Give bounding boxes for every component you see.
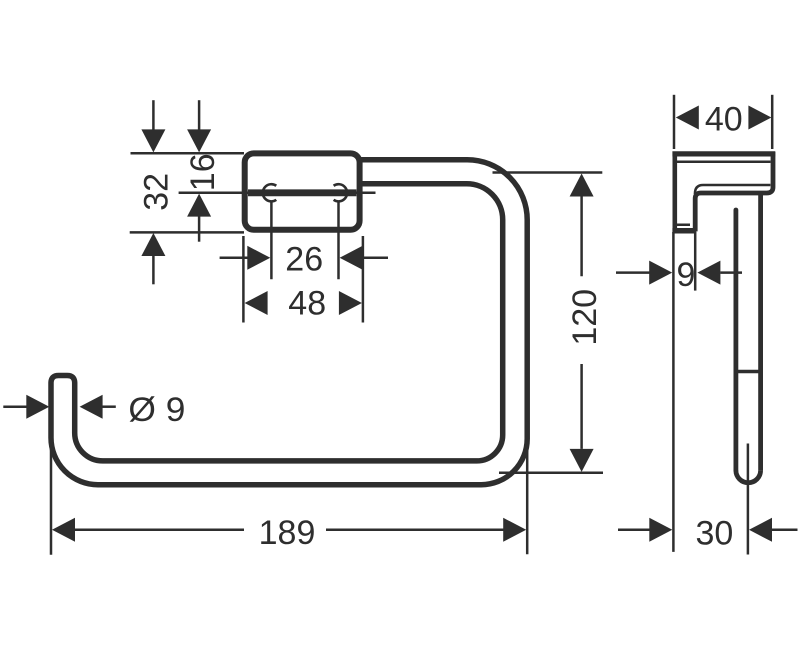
dimension diameter 9: left tail — [3, 405, 30, 408]
dimension 26: right tail — [363, 257, 388, 260]
side view: arm inner lip line — [695, 185, 771, 194]
dimension 9: left arrowhead — [649, 261, 672, 285]
dimension 189: left line — [75, 529, 244, 532]
dimension 48: right arrowhead — [339, 291, 362, 315]
side view: tube seam tick — [735, 370, 763, 374]
svg-text:40: 40 — [705, 101, 743, 139]
dimension 40: left extension line — [673, 95, 676, 149]
side view: bracket top line — [672, 151, 775, 156]
dimension 120: upper tail — [580, 196, 583, 276]
dimension 48: left arrowhead — [245, 291, 268, 315]
left screw hole arc — [263, 184, 277, 201]
dimension 16: bottom arrow tail — [198, 216, 201, 241]
towel ring tube outline (front view) — [51, 160, 527, 485]
side view: wall extension line — [672, 232, 675, 552]
dimension 26: right extension line — [337, 202, 340, 280]
dimension 32: bottom extension line — [130, 231, 244, 234]
dimension 26: left extension line — [270, 202, 273, 280]
side view: wall plate left edge — [672, 152, 677, 233]
dimension 9: left tail — [616, 271, 650, 274]
dimension 30: right extension line — [747, 444, 750, 555]
dimension 120: bottom tick — [499, 471, 603, 474]
svg-text:32: 32 — [138, 173, 176, 211]
plate slot centerline (thin) — [179, 191, 376, 194]
dimension 9: right extension line — [694, 232, 697, 291]
dimension 32: top arrow tail — [152, 100, 155, 131]
dimension 40: right extension line — [771, 95, 774, 149]
svg-text:120: 120 — [566, 289, 604, 346]
dimension 26: left tail — [220, 257, 248, 260]
dimension 189: right line — [326, 529, 505, 532]
side view: arm right edge and bottom — [695, 152, 773, 232]
dimension 16: top arrowhead — [187, 129, 211, 152]
dimension 30: left arrowhead — [649, 518, 672, 542]
dimension 30: right tail — [772, 529, 798, 532]
dimension 16: top arrow tail — [198, 100, 201, 131]
dimension 32: bottom arrow tail — [152, 256, 155, 284]
dimension 189: left extension line — [50, 440, 53, 555]
dimension 48: right extension line — [362, 236, 365, 323]
dimension 32: bottom arrowhead — [141, 233, 165, 256]
dimension 189: right extension line — [526, 448, 529, 554]
dimension 26: left arrowhead — [247, 246, 270, 270]
dimension 32: top arrowhead — [141, 129, 165, 152]
svg-text:48: 48 — [288, 284, 326, 322]
svg-text:26: 26 — [285, 241, 323, 279]
dimension 30: left tail — [618, 529, 653, 532]
side view: tube bottom cap — [736, 470, 761, 482]
dimension 120: top tick — [493, 171, 603, 174]
dimension 9: right tail — [720, 271, 742, 274]
svg-text:16: 16 — [184, 153, 222, 191]
dimension 9: right arrowhead — [697, 261, 720, 285]
dimension 30: right arrowhead — [749, 518, 772, 542]
svg-text:30: 30 — [695, 514, 733, 552]
side view: tube inner line — [734, 210, 739, 470]
dimension 40: right arrowhead — [748, 106, 771, 130]
side view: plate foot — [672, 228, 696, 234]
plate slot line (thick) — [248, 189, 356, 196]
side view: bracket seam line — [677, 160, 771, 163]
svg-text:Ø 9: Ø 9 — [128, 391, 185, 429]
dimension 26: right arrowhead — [340, 246, 363, 270]
dimension 120: lower tail — [580, 364, 583, 449]
dimension 16: bottom arrowhead — [187, 194, 211, 217]
dimension diameter 9: left arrowhead — [26, 395, 49, 419]
right screw hole arc — [334, 184, 348, 201]
dimension 48: left extension line — [242, 236, 245, 323]
side view: plate foot step — [673, 223, 690, 226]
wall plate (front view) — [245, 153, 360, 229]
svg-text:9: 9 — [676, 256, 695, 294]
dimension 189: right arrowhead — [503, 518, 526, 542]
dimension 40: left arrowhead — [676, 106, 699, 130]
dimension diameter 9: right arrowhead — [80, 395, 103, 419]
side view: tube outer line — [758, 193, 763, 470]
svg-text:189: 189 — [259, 514, 316, 552]
dimension 32: top extension line — [131, 152, 245, 155]
dimension 120: up arrowhead — [570, 174, 594, 197]
dimension 120: down arrowhead — [570, 449, 594, 472]
dimension diameter 9: right tail — [102, 405, 116, 408]
dimension 189: left arrowhead — [52, 518, 75, 542]
